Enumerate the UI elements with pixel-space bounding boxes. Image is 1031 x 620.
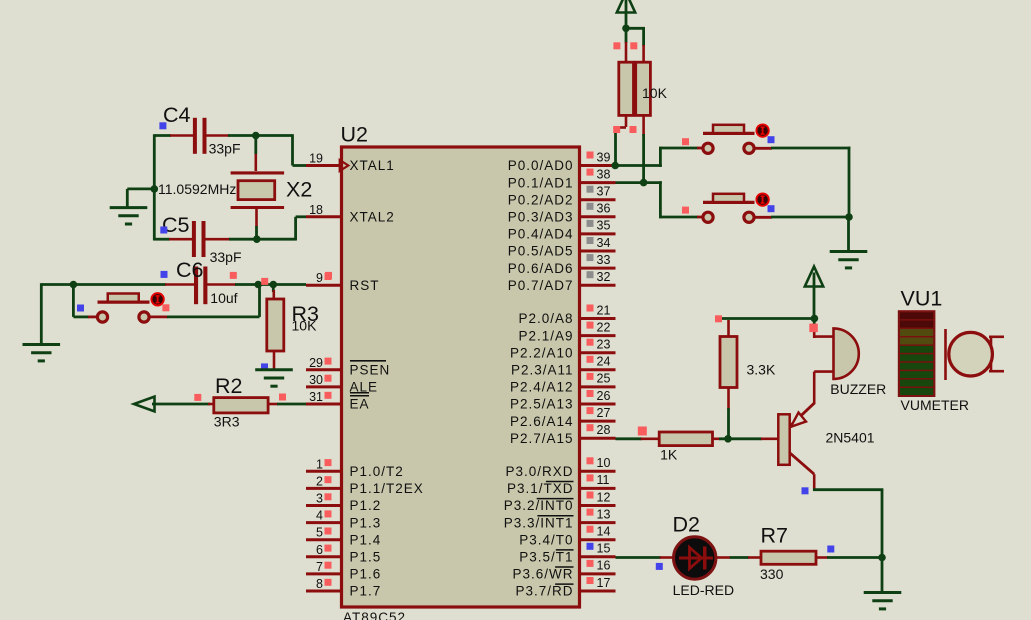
wire button left leg <box>73 285 98 317</box>
U2 pin 15 (P3.5/T1) <box>519 542 615 565</box>
ground (bottom right) <box>864 593 902 609</box>
U2 pin 34 (P0.5/AD5) <box>508 236 616 259</box>
svg-text:P0.2/AD2: P0.2/AD2 <box>508 192 574 207</box>
svg-text:3: 3 <box>316 492 323 506</box>
wire collector to bus <box>813 490 883 559</box>
wire 1K to base <box>713 437 780 440</box>
U2 pin 8 (P1.7) <box>306 577 381 599</box>
U2 pin 17 (P3.7/RD) <box>515 576 615 599</box>
resistor RN1b 10K <box>636 62 651 115</box>
svg-text:P2.4/A12: P2.4/A12 <box>510 380 574 395</box>
capacitor C4 plates <box>193 118 207 154</box>
svg-text:6: 6 <box>316 543 323 557</box>
transistor collector <box>790 453 815 491</box>
wire 3.3K bottom lead <box>727 388 730 441</box>
svg-text:12: 12 <box>597 490 611 504</box>
U2 pin 29 (PSEN) <box>306 356 390 378</box>
wire 3.3K top lead <box>727 320 730 338</box>
U2 pin 3 (P1.2) <box>306 492 381 514</box>
C6 reference label <box>176 258 204 282</box>
U2 pin 26 (P2.5/A13) <box>510 389 616 412</box>
1K value label <box>660 447 678 463</box>
X2 value 11.0592MHz <box>158 181 236 197</box>
wire lower button to ground <box>754 216 849 219</box>
svg-text:D2: D2 <box>673 512 700 536</box>
svg-text:P0.6/AD6: P0.6/AD6 <box>508 261 574 276</box>
svg-text:P3.5/T1: P3.5/T1 <box>519 550 573 565</box>
U2 pin 28 (P2.7/A15) <box>510 423 616 446</box>
buzzer top pin red marker <box>809 324 818 333</box>
U2 pin 25 (P2.4/A12) <box>510 372 616 395</box>
svg-text:3.3K: 3.3K <box>747 362 776 378</box>
svg-text:XTAL2: XTAL2 <box>350 210 395 225</box>
svg-text:35: 35 <box>597 219 611 233</box>
wire LED to R7 <box>717 556 763 559</box>
svg-text:P1.6: P1.6 <box>350 567 382 582</box>
svg-text:P3.6/WR: P3.6/WR <box>512 567 573 582</box>
D2 value LED-RED <box>673 582 734 598</box>
svg-text:17: 17 <box>597 576 611 590</box>
R7 right blue marker <box>827 546 834 553</box>
red marker right of pin 9 <box>325 272 332 279</box>
C6 value 10uf <box>210 290 237 306</box>
C4 value 33pF <box>209 140 241 156</box>
svg-text:36: 36 <box>597 202 611 216</box>
node junction below power <box>622 25 630 33</box>
C4 origin marker (blue) <box>159 122 166 129</box>
capacitor C4 <box>0 0 1 1</box>
2N5401 value label <box>826 430 875 446</box>
U2 pin 10 (P3.0/RXD) <box>505 456 615 479</box>
C5 reference label <box>162 213 190 237</box>
U2 pin 36 (P0.3/AD3) <box>508 202 616 225</box>
wire R3 bottom lead <box>273 351 276 370</box>
U2 pin 16 (P3.6/WR) <box>512 559 615 582</box>
wire power to resistors <box>626 27 645 63</box>
svg-text:33pF: 33pF <box>210 249 242 265</box>
C5 value 33pF <box>210 249 242 265</box>
svg-text:VU1: VU1 <box>901 287 943 311</box>
node junction on left vertical <box>151 185 159 193</box>
svg-text:PSEN: PSEN <box>350 363 391 378</box>
svg-text:P1.2: P1.2 <box>350 498 382 513</box>
wire power to 3.3K <box>719 317 814 320</box>
svg-text:P0.4/AD4: P0.4/AD4 <box>508 227 574 242</box>
wire button right leg <box>148 283 260 317</box>
svg-text:R2: R2 <box>215 374 242 398</box>
U2 pin 24 (P2.3/A11) <box>511 355 616 378</box>
U2 pin 4 (P1.3) <box>306 509 381 531</box>
svg-text:P1.5: P1.5 <box>350 550 382 565</box>
U2 pin 37 (P0.2/AD2) <box>508 185 616 208</box>
VU meter circle <box>949 332 993 376</box>
svg-text:2: 2 <box>316 474 323 488</box>
svg-text:P1.4: P1.4 <box>350 532 382 547</box>
svg-text:X2: X2 <box>286 177 312 201</box>
svg-text:10uf: 10uf <box>210 290 237 306</box>
svg-text:14: 14 <box>597 525 611 539</box>
U2 pin 6 (P1.5) <box>306 543 381 565</box>
svg-text:34: 34 <box>597 236 611 250</box>
wire buzzer top pin <box>814 318 834 338</box>
svg-text:24: 24 <box>597 355 611 369</box>
push button (upper) <box>703 124 769 153</box>
svg-text:38: 38 <box>597 167 611 181</box>
D2 reference label <box>673 512 700 536</box>
U2 pin 32 (P0.7/AD7) <box>508 270 616 293</box>
node junction LED-ground <box>878 554 886 562</box>
svg-text:4: 4 <box>316 509 323 523</box>
R7 reference label <box>761 524 788 548</box>
svg-text:11.0592MHz: 11.0592MHz <box>158 181 236 197</box>
10K value label <box>642 85 668 101</box>
svg-text:XTAL1: XTAL1 <box>350 158 395 173</box>
ground (under R3) <box>255 370 293 386</box>
svg-text:18: 18 <box>309 203 323 217</box>
svg-text:1K: 1K <box>660 447 678 463</box>
node junction at C5/crystal bottom <box>253 235 261 243</box>
U2 pin 38 (P0.1/AD1) <box>508 167 616 190</box>
wire upper button to right bus <box>754 147 850 219</box>
svg-text:1: 1 <box>316 457 323 471</box>
VU meter left bracket line <box>944 329 947 380</box>
wire R2 to pin 31 <box>268 403 307 406</box>
svg-text:P3.2/INT0: P3.2/INT0 <box>504 498 574 513</box>
U2 pin 39 (P0.0/AD0) <box>508 150 616 173</box>
U2 pin 18 (XTAL2) <box>306 203 395 225</box>
svg-text:29: 29 <box>309 356 323 370</box>
push button (lower) <box>703 193 769 222</box>
U2 pin 27 (P2.6/A14) <box>510 406 616 429</box>
svg-text:P1.7: P1.7 <box>350 584 382 599</box>
svg-text:P0.3/AD3: P0.3/AD3 <box>508 210 574 225</box>
VU meter VU1 bargraph <box>899 311 935 396</box>
wire left vertical (C4-C5) <box>153 134 156 240</box>
U2 pin 35 (P0.4/AD4) <box>508 219 616 242</box>
U2 pin 33 (P0.6/AD6) <box>508 253 616 276</box>
svg-text:P0.0/AD0: P0.0/AD0 <box>508 158 574 173</box>
node junction reset-left <box>70 281 78 289</box>
node junction base <box>724 435 732 443</box>
resistor R7 330 <box>761 551 816 564</box>
svg-text:9: 9 <box>316 271 323 285</box>
svg-text:37: 37 <box>597 185 611 199</box>
X2 reference label <box>286 177 312 201</box>
svg-text:LED-RED: LED-RED <box>673 582 734 598</box>
buzzer BZ1 <box>834 328 859 379</box>
U2 reference designator <box>341 123 368 147</box>
U2 pin 22 (P2.1/A9) <box>518 320 615 343</box>
svg-text:P2.0/A8: P2.0/A8 <box>518 311 573 326</box>
U2 pin 5 (P1.4) <box>306 526 381 548</box>
U2 pin 7 (P1.6) <box>306 560 381 582</box>
svg-text:U2: U2 <box>341 123 368 147</box>
svg-text:22: 22 <box>597 320 611 334</box>
BUZZER label <box>830 381 886 397</box>
red markers at resistor tops <box>613 42 637 49</box>
lower button red marker <box>682 207 689 214</box>
svg-text:P3.4/T0: P3.4/T0 <box>519 532 573 547</box>
svg-text:P1.1/T2EX: P1.1/T2EX <box>350 481 424 496</box>
wire R3 top lead <box>272 285 275 301</box>
svg-text:BUZZER: BUZZER <box>830 381 886 397</box>
C4 reference label <box>163 103 191 127</box>
wire right 10K to pin 38 <box>642 115 645 184</box>
svg-text:10: 10 <box>597 456 611 470</box>
wire pin28 to 1K <box>616 437 661 440</box>
svg-text:33pF: 33pF <box>209 140 241 156</box>
svg-text:P3.3/INT1: P3.3/INT1 <box>504 515 574 530</box>
node junction pin 38 <box>640 179 648 187</box>
svg-text:23: 23 <box>597 338 611 352</box>
U2 part value AT89C52 <box>343 610 406 620</box>
C6 right red marker <box>230 272 237 279</box>
svg-text:21: 21 <box>597 303 611 317</box>
svg-text:RST: RST <box>350 278 380 293</box>
svg-text:31: 31 <box>309 390 323 404</box>
red marker 1K left <box>638 427 647 436</box>
wire buzzer bottom pin <box>814 372 834 405</box>
svg-text:15: 15 <box>597 542 611 556</box>
svg-text:R7: R7 <box>761 524 788 548</box>
svg-text:P2.5/A13: P2.5/A13 <box>510 397 574 412</box>
R2 reference label <box>215 374 242 398</box>
U2 pin 11 (P3.1/TXD) <box>507 473 616 496</box>
button blue marker <box>77 305 84 312</box>
svg-text:P0.7/AD7: P0.7/AD7 <box>508 278 574 293</box>
VUMETER label <box>901 397 969 413</box>
wire XTAL2 net (C5 row) <box>154 217 306 241</box>
svg-text:P2.2/A10: P2.2/A10 <box>510 345 574 360</box>
svg-text:P3.0/RXD: P3.0/RXD <box>505 464 573 479</box>
node junction pin 39 <box>611 162 619 170</box>
U2 pin 12 (P3.2/INT0) <box>504 490 616 513</box>
U2 pin 19 (XTAL1) <box>306 152 395 174</box>
svg-text:10K: 10K <box>292 318 318 334</box>
U2 XTAL1 clock input arrow <box>340 160 349 171</box>
collector blue marker <box>802 487 809 494</box>
capacitor C6 plates <box>194 267 207 305</box>
R2 value 3R3 <box>214 414 240 430</box>
svg-text:7: 7 <box>316 560 323 574</box>
capacitor C5 plates <box>192 221 206 257</box>
resistor R3 10K <box>267 299 284 351</box>
red marker above R2 wire <box>194 394 201 401</box>
svg-text:3R3: 3R3 <box>214 414 240 430</box>
svg-text:P1.3: P1.3 <box>350 515 382 530</box>
lower button blue marker <box>768 205 775 212</box>
wire pin39 to upper button <box>616 147 704 167</box>
wire to left ground <box>40 283 43 344</box>
wire XTAL1 net (C4 row) <box>154 134 306 165</box>
R3 ground blue marker <box>261 363 268 370</box>
wire EA to R2 <box>152 403 215 406</box>
svg-text:P0.5/AD5: P0.5/AD5 <box>508 244 574 259</box>
svg-text:C6: C6 <box>176 258 204 282</box>
resistor RN1a 10K <box>619 62 634 115</box>
U2 pin 2 (P1.1/T2EX) <box>306 474 424 496</box>
svg-text:26: 26 <box>597 389 611 403</box>
resistor R2 3R3 <box>214 398 268 413</box>
wire R7 to ground bus <box>816 556 882 559</box>
node junction buttons-ground <box>845 213 853 221</box>
svg-text:AT89C52: AT89C52 <box>343 610 406 620</box>
wire left 10K to pin 39 <box>616 115 627 166</box>
svg-text:25: 25 <box>597 372 611 386</box>
svg-text:C4: C4 <box>163 103 191 127</box>
wire pin15 to LED <box>616 556 674 559</box>
R3 value 10K <box>292 318 318 334</box>
red marker 3.3K top <box>715 315 722 322</box>
svg-text:30: 30 <box>309 373 323 387</box>
ground (buttons) <box>830 252 868 268</box>
node junction buzzer power <box>811 315 819 323</box>
svg-text:28: 28 <box>597 423 611 437</box>
VU1 reference label <box>901 287 943 311</box>
node junction reset-right <box>254 281 262 289</box>
ground (crystal) <box>110 208 148 224</box>
button red marker <box>162 304 169 311</box>
svg-text:P2.3/A11: P2.3/A11 <box>511 363 574 378</box>
U2 pin 31 (EA) <box>306 390 370 412</box>
U2 pin 30 (ALE) <box>306 373 378 395</box>
wire pin38 to lower button <box>616 181 704 218</box>
svg-text:P2.1/A9: P2.1/A9 <box>518 328 573 343</box>
resistor 3.3K <box>720 337 737 388</box>
3.3K value label <box>747 362 776 378</box>
push button (reset) <box>97 293 163 322</box>
upper button red marker <box>682 138 689 145</box>
svg-text:39: 39 <box>597 150 611 164</box>
svg-text:P0.1/AD1: P0.1/AD1 <box>508 175 574 190</box>
wire RST net row <box>41 283 306 286</box>
red markers at resistor bottoms <box>613 126 636 133</box>
LED D2 <box>674 537 716 579</box>
resistor 1K <box>659 432 712 446</box>
svg-text:2N5401: 2N5401 <box>826 430 875 446</box>
svg-text:10K: 10K <box>642 85 668 101</box>
svg-text:P2.7/A15: P2.7/A15 <box>510 431 574 446</box>
svg-text:P2.6/A14: P2.6/A14 <box>510 414 574 429</box>
EA left arrow <box>134 397 155 412</box>
power symbol (top) <box>617 0 635 30</box>
svg-text:P3.1/TXD: P3.1/TXD <box>507 481 574 496</box>
svg-text:EA: EA <box>350 397 370 412</box>
crystal X2 <box>231 173 285 208</box>
VU meter right bracket <box>989 337 1004 371</box>
svg-text:P1.0/T2: P1.0/T2 <box>350 464 404 479</box>
ground (reset) <box>23 345 61 361</box>
wire to bottom ground <box>881 558 884 593</box>
microcontroller U2 AT89C52 body <box>342 147 580 607</box>
svg-text:P3.7/RD: P3.7/RD <box>515 584 573 599</box>
wire to crystal ground <box>127 189 155 208</box>
node junction at R3 top <box>270 281 278 289</box>
C5 origin marker (blue) <box>160 227 167 234</box>
U2 pin 13 (P3.3/INT1) <box>504 507 616 530</box>
C6 origin marker (blue) <box>161 271 168 278</box>
power symbol (buzzer) <box>805 267 823 320</box>
svg-text:330: 330 <box>760 566 784 582</box>
svg-text:VUMETER: VUMETER <box>901 397 969 413</box>
U2 pin 1 (P1.0/T2) <box>306 457 404 479</box>
U2 pin 21 (P2.0/A8) <box>518 303 615 326</box>
U2 pin 14 (P3.4/T0) <box>519 525 615 548</box>
red marker right of R2 <box>279 394 286 401</box>
transistor emitter <box>790 403 815 427</box>
R3 reference label <box>292 302 320 326</box>
transistor Q1 2N5401 base bar <box>778 414 789 465</box>
LED blue marker <box>656 563 663 570</box>
red marker on RST wire <box>261 278 268 285</box>
R7 value 330 <box>760 566 784 582</box>
svg-text:32: 32 <box>597 270 611 284</box>
U2 pin 9 (RST) <box>306 271 380 293</box>
node junction at C4/crystal top <box>252 132 260 140</box>
svg-text:27: 27 <box>597 406 611 420</box>
upper button blue marker <box>768 136 775 143</box>
svg-text:8: 8 <box>316 577 323 591</box>
wire buttons ground drop <box>847 217 850 252</box>
svg-text:13: 13 <box>597 507 611 521</box>
svg-text:19: 19 <box>309 152 323 166</box>
svg-text:11: 11 <box>597 473 610 487</box>
svg-text:5: 5 <box>316 526 323 540</box>
svg-text:33: 33 <box>597 253 611 267</box>
wire crystal top stem <box>254 136 257 172</box>
svg-text:16: 16 <box>597 559 611 573</box>
U2 pin 23 (P2.2/A10) <box>510 338 616 361</box>
wire crystal bottom stem <box>255 209 258 239</box>
